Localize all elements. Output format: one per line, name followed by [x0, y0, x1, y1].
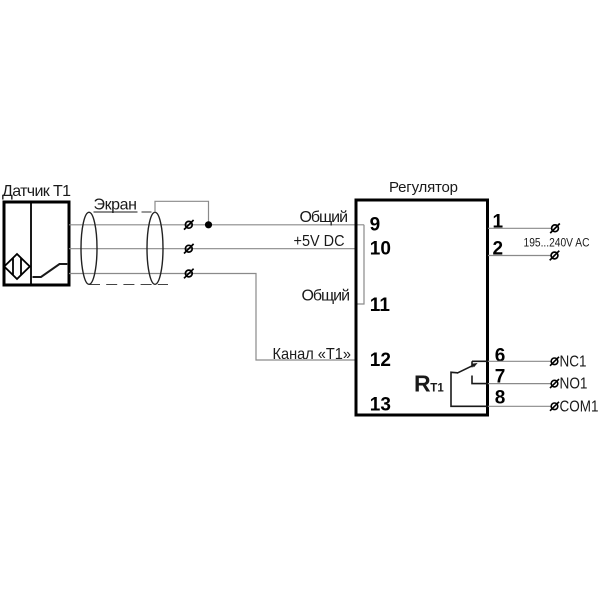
connector ø label NC1: [550, 354, 587, 371]
wire terminal 1 (mains L): [488, 227, 551, 229]
svg-text:Регулятор: Регулятор: [389, 179, 458, 196]
relay switch arm arrowhead: [471, 363, 477, 367]
svg-text:Экран: Экран: [94, 197, 138, 214]
connector ø on wire 1: [550, 224, 560, 234]
svg-text:COM1: COM1: [560, 398, 599, 415]
svg-text:NO1: NO1: [560, 376, 588, 393]
wire: sensor to terminal 10 (+5V DC): [69, 248, 356, 250]
sensor symbol diamond: [4, 254, 30, 279]
svg-text:1: 1: [493, 212, 504, 233]
regulator box: [356, 200, 488, 415]
connector ø label COM1: [550, 398, 599, 415]
relay switch arm: [457, 365, 474, 373]
connector ø on wire 9: [184, 220, 194, 230]
svg-text:Датчик Т1: Датчик Т1: [2, 183, 71, 200]
junction dot on Общий wire: [205, 221, 212, 228]
wire: sensor to terminal 9 (Общий): [69, 224, 364, 226]
svg-text:10: 10: [370, 239, 391, 260]
svg-text:13: 13: [370, 395, 391, 416]
svg-text:R: R: [414, 371, 431, 397]
svg-text:12: 12: [370, 350, 391, 371]
shield cable dashed top edge: [142, 211, 152, 213]
wire terminal 2 (mains N): [488, 255, 551, 257]
svg-text:Общий: Общий: [302, 288, 351, 305]
svg-text:7: 7: [495, 367, 506, 388]
shield label underline: [94, 211, 138, 213]
svg-text:6: 6: [495, 346, 506, 367]
wire terminal 8 (COM1): [488, 405, 551, 407]
svg-text:11: 11: [370, 295, 391, 316]
svg-text:Общий: Общий: [300, 209, 349, 226]
wire terminal 7 (NO1): [488, 383, 551, 385]
sensor diamond chord right: [20, 258, 22, 275]
svg-text:Т1: Т1: [430, 383, 444, 395]
shield drain wire to Общий: [155, 201, 209, 225]
sensor box (Датчик Т1): [4, 202, 69, 285]
shield cable dashed bottom edge: [89, 284, 168, 286]
shield cable ellipse left: [81, 212, 97, 284]
wire: sensor to terminal 12 (Канал «Т1»): [69, 274, 356, 361]
svg-text:8: 8: [495, 388, 506, 409]
svg-text:195...240V AC: 195...240V AC: [524, 236, 590, 250]
svg-text:9: 9: [370, 215, 381, 236]
relay common riser (pin 8): [451, 372, 488, 406]
sensor diamond chord left: [12, 258, 14, 275]
svg-text:Канал «Т1»: Канал «Т1»: [273, 346, 352, 363]
relay RT1 label: [414, 371, 444, 397]
sensor box divider: [30, 202, 32, 285]
relay NC contact mark: [471, 361, 473, 367]
relay NC contact stub (pin 6): [472, 360, 488, 362]
connector ø on wire 12: [184, 269, 194, 279]
sensor output characteristic curve: [33, 264, 68, 277]
connector ø on wire 2: [550, 251, 560, 261]
relay NO contact stub (pin 7): [472, 376, 488, 384]
svg-text:2: 2: [493, 239, 504, 260]
svg-text:+5V DC: +5V DC: [294, 233, 345, 250]
connector ø on wire 10: [184, 244, 194, 254]
svg-text:NC1: NC1: [560, 354, 587, 371]
internal link bracket terminals 9-11: [356, 225, 364, 304]
connector ø label NO1: [550, 376, 588, 393]
wire terminal 6 (NC1): [488, 360, 551, 362]
shield cable ellipse right: [147, 212, 163, 284]
